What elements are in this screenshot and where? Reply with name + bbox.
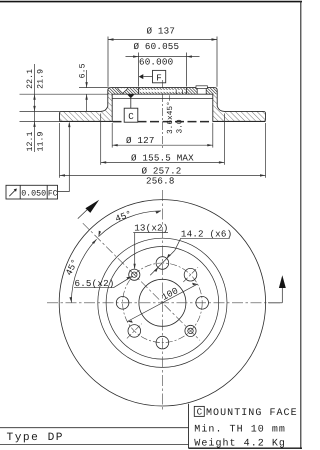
hat interior edge [112,97,213,99]
outer circle [59,200,265,406]
ext line flange top (for 6.5) [79,87,109,89]
Weight text [194,438,286,450]
dim Ø137 text [147,26,176,37]
bottom border right [189,447,303,449]
dim 22.1/21.9 text [26,69,46,89]
bore slit white [139,90,186,92]
svg-text:21.9: 21.9 [36,69,45,89]
hole notch right white [197,88,206,94]
svg-text:Type DP: Type DP [7,432,65,444]
circle D155.5 [98,238,227,367]
diagonal 45-225 hole marks [183,267,198,282]
dim Ø60.055/60.000 text [134,41,180,68]
runout symbol [9,189,16,196]
dim 12.1/11.9 text [26,131,46,151]
svg-text:FC: FC [48,190,58,199]
svg-text:6.5(x2): 6.5(x2) [75,278,115,289]
dim 100 bolt circle [127,283,197,323]
dim 22.1/21.9 vertical line [34,64,36,152]
svg-text:C: C [197,406,203,417]
svg-text:256.8: 256.8 [146,175,175,186]
stud hole chamfer boss [196,86,207,89]
hole 315deg counterbored [185,325,196,336]
svg-text:3.0: 3.0 [175,119,184,133]
dim 6.5 vertical line and arrows [86,70,88,88]
dim Ø127 text [126,135,155,146]
svg-text:6.5: 6.5 [79,63,88,78]
page top border [0,1,302,3]
dim Ø257.2 extension lines [59,123,61,178]
bolt circle [123,263,203,343]
page right border [300,1,302,449]
section centerline [162,80,164,150]
diagonal 135-315 centerline [83,223,200,340]
ext line band bottom (left) [20,120,61,122]
dim Ø155.5 line [101,161,225,163]
hole 180deg [116,297,129,310]
datum F flag [139,74,144,79]
dim 14.2 (x6) on top hole [150,229,232,276]
svg-text:22.1: 22.1 [26,69,35,89]
hole 90deg [156,257,169,270]
inner sidewall right [212,94,214,121]
svg-text:0.050: 0.050 [21,190,46,199]
svg-text:Ø 155.5 MAX: Ø 155.5 MAX [131,152,194,163]
Type DP text [7,432,65,444]
svg-text:F: F [156,73,162,84]
hole 270deg [156,336,169,349]
stud hole right edges [197,88,206,94]
rotation arrow top-left [78,200,99,219]
circle D137 [106,246,219,359]
feature control frame 0.050 FC [6,122,71,199]
svg-text:Ø 127: Ø 127 [126,135,155,146]
svg-text:Ø 137: Ø 137 [147,26,176,37]
bore chamfer marks [175,90,177,94]
Min TH text [194,424,286,436]
bore edge right [185,88,187,95]
svg-text:MOUNTING FACE: MOUNTING FACE [206,408,298,419]
dim Ø127 extension lines [111,123,113,148]
dim Ø137 line [108,39,217,41]
dim 256.8 text [146,175,175,186]
title rules left [0,427,189,429]
dim 6.5 text [79,63,88,78]
rotation arrow right [268,275,286,303]
dim Ø60 extension lines [138,53,140,87]
countersink V left hole [117,88,128,93]
dim Ø155.5 extension lines [100,114,102,165]
dim 6.5(x2) leader [74,276,132,289]
svg-text:Weight 4.2 Kg: Weight 4.2 Kg [194,438,286,450]
svg-text:60.000: 60.000 [139,56,173,67]
flange top line [111,87,215,89]
svg-text:11.9: 11.9 [36,131,45,151]
hole notch left white [117,88,128,93]
ext line flange bottom [20,93,113,95]
flange bottom line [112,93,213,95]
bore edge left [138,88,140,95]
svg-text:14.2 (x6): 14.2 (x6) [181,229,232,240]
hole 45deg [184,268,197,281]
bore circle [139,279,186,326]
svg-text:3.6x45°: 3.6x45° [166,101,175,134]
flange hatch [108,88,217,95]
C mounting face label [194,406,297,418]
band hatch left [60,111,113,121]
dim 13(x2) leader [133,223,168,270]
ext line band top (left) [20,110,61,112]
dim Ø127 line [112,144,213,146]
FC leader to band [58,123,70,192]
inner sidewall left [111,94,113,121]
hole 135deg counterbored [129,269,140,280]
dim Ø137 extension lines [107,37,109,87]
hole 0deg [196,297,209,310]
divider vertical [188,404,190,448]
hole 225deg [128,325,141,338]
dim Ø257.2 line [60,174,266,176]
vertical centerline [161,190,163,410]
dim Ø60 line with outside arrows [126,56,200,58]
45deg arc dim upper [99,208,162,236]
band hatch right [213,111,266,121]
svg-text:C: C [128,111,134,122]
chamfer labels 3.6x45 and 3.0 [166,101,184,134]
band outline left [61,88,111,112]
dim Ø257.2 text [142,165,182,176]
mounting face dashed line [113,121,213,123]
svg-text:Ø 60.055: Ø 60.055 [134,41,180,52]
dim Ø155.5 text [131,152,194,163]
band outline right [214,88,264,112]
svg-text:Min. TH 10 mm: Min. TH 10 mm [194,424,286,436]
datum C flag [124,94,138,122]
45deg arc dim lower [63,239,96,302]
svg-text:13(x2): 13(x2) [134,223,168,234]
svg-text:12.1: 12.1 [26,131,35,151]
horizontal centerline [47,302,282,304]
